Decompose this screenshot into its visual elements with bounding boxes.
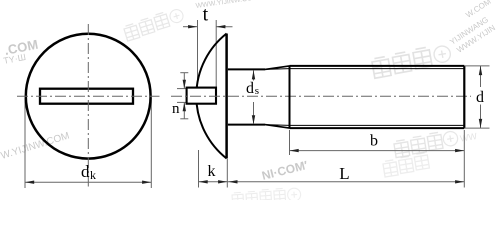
- svg-text:n: n: [172, 101, 180, 117]
- svg-text:d: d: [476, 89, 484, 106]
- svg-text:k: k: [90, 168, 96, 182]
- svg-text:b: b: [370, 133, 378, 150]
- svg-text:d: d: [246, 80, 254, 97]
- svg-text:k: k: [208, 163, 216, 180]
- svg-text:s: s: [255, 85, 259, 97]
- svg-text:d: d: [81, 162, 90, 181]
- svg-text:t: t: [203, 3, 209, 25]
- svg-text:L: L: [339, 164, 349, 183]
